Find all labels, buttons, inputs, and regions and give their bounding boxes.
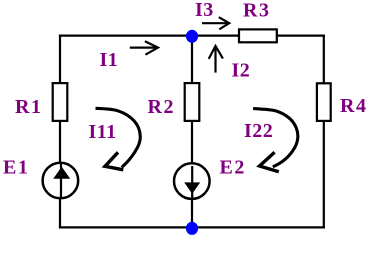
svg-text:R3: R3 [243,0,270,21]
wire top [59,34,325,36]
svg-text:I11: I11 [89,121,117,143]
svg-text:I1: I1 [100,49,119,71]
resistor R3 [239,29,277,42]
resistor R1 [53,83,68,121]
wire right [323,35,325,229]
loop arrow I22 [253,109,298,172]
svg-text:R1: R1 [15,96,42,118]
resistor R4 [317,83,331,121]
wire middle [191,36,193,228]
source E2 [174,163,210,199]
svg-text:E2: E2 [220,156,246,178]
arrow I2 [209,46,223,73]
arrow I1 [130,41,158,55]
node top [186,30,198,43]
svg-text:R4: R4 [340,95,367,117]
source E1 [43,163,79,199]
svg-text:R2: R2 [148,96,175,118]
svg-text:E1: E1 [3,156,29,178]
resistor R2 [185,83,200,121]
svg-text:I2: I2 [232,60,251,82]
node bottom [186,222,198,235]
arrow I3 [202,17,229,29]
svg-text:I3: I3 [195,0,214,21]
wire left [59,35,61,229]
svg-text:I22: I22 [244,120,273,142]
loop arrow I11 [96,108,141,170]
wire bottom [59,226,325,228]
